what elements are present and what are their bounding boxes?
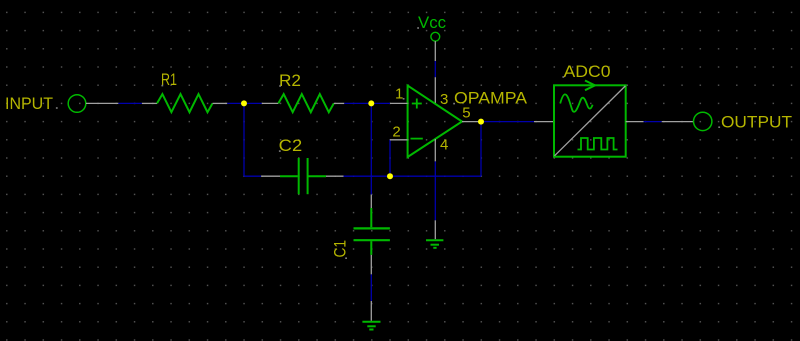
svg-text:ADC0: ADC0 — [564, 62, 611, 81]
svg-text:R2: R2 — [279, 71, 301, 90]
ADC output pin — [626, 121, 644, 123]
wire C2 to node C — [344, 175, 391, 177]
wire node B to op-amp pin 1 — [371, 102, 390, 104]
capacitor C1 lead bottom — [370, 241, 372, 255]
junction node C — [387, 173, 393, 179]
svg-text:C1: C1 — [331, 240, 350, 258]
wire op-amp pin 4 to ground — [434, 161, 436, 220]
capacitor C1 pin bottom — [370, 255, 372, 275]
op-amp pin 3 — [434, 77, 436, 104]
capacitor C2 pin left — [261, 175, 280, 177]
wire node C to feedback corner — [390, 175, 481, 177]
wire input to R1 — [118, 102, 141, 104]
junction output node — [478, 119, 484, 125]
resistor R2 — [278, 94, 334, 112]
input terminal circle — [68, 95, 86, 113]
capacitor C2 plate right — [307, 158, 309, 194]
svg-text:INPUT: INPUT — [5, 94, 53, 113]
ADC diagonal — [555, 86, 626, 156]
wire C2 left vertical — [244, 175, 261, 177]
capacitor C1 pin top — [370, 195, 372, 209]
capacitor C2 pin right — [326, 175, 344, 177]
wire node C up to op-amp pin 2 — [389, 140, 391, 176]
resistor R1 pin right — [213, 102, 228, 104]
ground symbol below C1 — [362, 322, 380, 330]
svg-text:4: 4 — [440, 137, 448, 154]
ADC square wave — [578, 138, 618, 150]
output terminal circle — [694, 112, 712, 130]
wire Vcc to op-amp pin 3 — [434, 61, 436, 77]
wire ADC to output terminal — [644, 121, 662, 123]
ground symbol below op-amp — [426, 240, 443, 248]
wire feedback up to output — [480, 122, 482, 177]
wire R2 to node B — [344, 102, 371, 104]
ADC input pin — [534, 121, 554, 123]
op-amp pin 2 — [390, 139, 408, 141]
ground pin below C1 — [370, 301, 372, 321]
resistor R2 pin left — [262, 102, 279, 104]
power Vcc pin — [434, 41, 436, 61]
op-amp plus mark — [412, 99, 422, 109]
svg-text:OPAMPA: OPAMPA — [454, 89, 528, 108]
op-amp U1 triangle — [408, 86, 462, 157]
svg-text:2: 2 — [392, 123, 400, 140]
ADC arrow on top edge — [585, 81, 595, 91]
ADC U2 box — [554, 85, 626, 156]
svg-text:C2: C2 — [279, 136, 303, 155]
wire node A to R2 — [244, 102, 262, 104]
capacitor C1 plate top — [354, 227, 390, 229]
wire output node to ADC — [481, 121, 534, 123]
op-amp minus mark — [411, 138, 423, 140]
junction node A — [241, 100, 247, 106]
capacitor C2 lead left — [280, 175, 298, 177]
wire node B down to C1 — [370, 103, 372, 194]
input terminal pin — [86, 102, 118, 104]
svg-text:3: 3 — [440, 91, 448, 108]
capacitor C1 lead top — [370, 208, 372, 227]
capacitor C1 plate bottom — [354, 239, 390, 241]
label origin markers — [56, 27, 720, 259]
junction node B — [368, 100, 374, 106]
ground pin below op-amp — [434, 220, 436, 239]
wire R1 to node A — [227, 102, 244, 104]
capacitor C2 lead right — [309, 175, 327, 177]
power Vcc symbol circle — [431, 32, 440, 41]
svg-text:Vcc: Vcc — [418, 13, 446, 32]
op-amp pin 4 — [434, 139, 436, 161]
svg-text:1: 1 — [395, 86, 403, 103]
resistor R1 pin left — [142, 102, 157, 104]
wire node A down — [243, 103, 245, 176]
resistor R2 pin right — [334, 102, 345, 104]
svg-text:R1: R1 — [161, 70, 177, 89]
resistor R1 — [157, 94, 213, 112]
capacitor C2 plate left — [298, 158, 300, 194]
ADC sine wave — [560, 94, 592, 111]
output terminal pin — [662, 121, 693, 123]
op-amp pin 1 — [390, 102, 408, 104]
svg-text:OUTPUT: OUTPUT — [721, 113, 792, 132]
op-amp pin 5 — [462, 121, 481, 123]
wire C1 to ground — [370, 274, 372, 301]
